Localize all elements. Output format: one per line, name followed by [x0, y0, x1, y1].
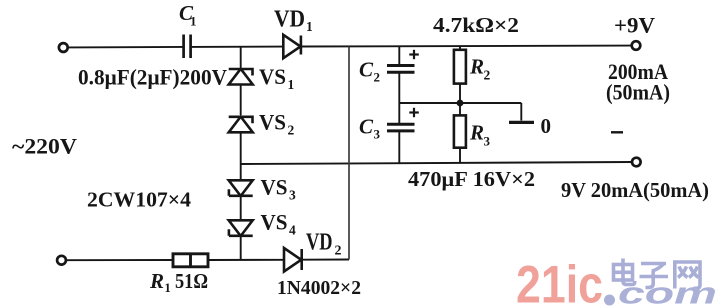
svg-text:3: 3	[484, 134, 491, 149]
svg-text:1N4002×2: 1N4002×2	[277, 277, 361, 299]
label +9V	[614, 13, 655, 38]
wire middle rail	[241, 162, 632, 164]
svg-text:3: 3	[289, 188, 296, 203]
svg-text:+9V: +9V	[614, 13, 655, 38]
zener VS3	[229, 180, 253, 196]
terminal input bottom	[57, 256, 66, 265]
terminal output -9V	[632, 158, 641, 167]
svg-text:2: 2	[484, 68, 491, 83]
svg-text:0.8μF(2μF)200V: 0.8μF(2μF)200V	[78, 65, 227, 90]
label VS3	[261, 175, 297, 203]
svg-text:VS: VS	[259, 110, 286, 135]
wire bottom rail left segment	[66, 259, 173, 261]
wire capacitor column top	[398, 46, 400, 64]
label VD2	[306, 230, 342, 259]
svg-text:R: R	[469, 121, 484, 145]
label 0 ground	[541, 114, 552, 138]
svg-text:0: 0	[541, 114, 552, 138]
svg-text:R: R	[149, 269, 164, 293]
svg-text:VD: VD	[274, 7, 305, 33]
wire top rail right segment	[301, 45, 632, 48]
label 200mA	[608, 59, 668, 84]
label VS4	[261, 210, 297, 238]
svg-text:VS: VS	[261, 210, 288, 235]
label VD1	[274, 7, 313, 34]
label 1N4002x2	[277, 277, 361, 299]
label VS1	[259, 64, 295, 92]
zener VS1	[229, 69, 253, 85]
label R2	[469, 55, 491, 83]
plus sign C3 polarity	[409, 108, 419, 117]
watermark dot	[604, 295, 615, 306]
svg-text:1: 1	[165, 281, 171, 295]
svg-text:(50mA): (50mA)	[606, 80, 670, 105]
svg-text:~220V: ~220V	[12, 134, 77, 159]
svg-text:9V 20mA(50mA): 9V 20mA(50mA)	[561, 178, 709, 202]
svg-text:4: 4	[289, 223, 296, 238]
wire bottom rail right segment	[302, 259, 349, 261]
terminal output +9V	[632, 41, 641, 50]
svg-text:2: 2	[288, 123, 295, 138]
label (50mA)	[606, 80, 670, 105]
label C3	[359, 115, 381, 142]
zener VS2	[229, 117, 253, 133]
label R3	[469, 121, 491, 149]
capacitor C2	[387, 66, 415, 73]
resistor R2	[454, 50, 466, 84]
ground 0V bar	[509, 121, 534, 124]
svg-text:C: C	[359, 115, 374, 139]
wire capacitor column middle	[398, 74, 400, 124]
svg-text:VS: VS	[259, 64, 286, 89]
svg-text:470μF 16V×2: 470μF 16V×2	[408, 167, 535, 191]
terminal input top	[59, 43, 68, 52]
label 0.8uF(2uF)200V	[78, 65, 227, 90]
svg-text:VD: VD	[306, 230, 333, 256]
label R1 51ohm	[149, 269, 208, 295]
label 470uF 16Vx2	[408, 167, 535, 191]
plus sign C2 polarity	[409, 50, 419, 59]
wire between VS3 and VS4	[240, 196, 242, 222]
wire midpoint horizontal	[399, 102, 521, 104]
wire capacitor column bottom	[398, 132, 400, 163]
label 9V 20mA(50mA)	[561, 178, 709, 202]
wire between VS1 and VS2	[240, 85, 242, 116]
label C2	[359, 58, 380, 85]
svg-text:1: 1	[190, 14, 197, 29]
capacitor C3	[387, 124, 415, 131]
svg-text:1: 1	[306, 19, 313, 34]
label C1	[179, 1, 197, 29]
svg-text:3: 3	[374, 127, 381, 142]
resistor R1	[173, 254, 208, 267]
svg-text:21ic: 21ic	[516, 256, 603, 308]
watermark char zi	[640, 264, 669, 288]
diode VD2	[284, 248, 302, 272]
svg-text:2CW107×4: 2CW107×4	[87, 188, 192, 212]
diode VD1	[283, 35, 301, 58]
wire ground drop	[520, 103, 522, 121]
wire zener chain top stub	[240, 47, 242, 68]
label 4.7kohm x2	[433, 13, 519, 37]
label VS2	[259, 110, 295, 138]
resistor R3	[454, 115, 466, 147]
wire bottom rail middle segment	[208, 259, 284, 261]
zener VS4	[229, 220, 253, 236]
svg-text:4.7kΩ×2: 4.7kΩ×2	[433, 13, 519, 37]
watermark char wang	[675, 262, 700, 289]
wire R3 bottom stub	[459, 148, 461, 163]
wire between VS2 and VS3	[240, 133, 242, 181]
watermark 21ic	[516, 256, 603, 308]
node junction R2 R3 midpoint	[457, 100, 464, 107]
capacitor C1	[184, 35, 191, 59]
svg-text:1: 1	[288, 77, 295, 92]
svg-text:R: R	[469, 55, 484, 79]
wire VS4 to bottom rail	[240, 236, 242, 260]
wire R2 bottom to R3 top	[459, 84, 461, 116]
minus sign output	[611, 131, 623, 133]
svg-text:com: com	[618, 276, 716, 308]
svg-text:C: C	[359, 58, 374, 82]
wire top rail left segment	[68, 46, 184, 49]
svg-text:VS: VS	[261, 175, 288, 200]
label ~220V	[12, 134, 77, 159]
svg-text:2: 2	[335, 244, 342, 259]
watermark char dian	[614, 259, 635, 285]
svg-text:2: 2	[374, 70, 381, 85]
label 2CW107x4	[87, 188, 192, 212]
wire top rail middle segment	[190, 46, 283, 48]
svg-text:51Ω: 51Ω	[175, 269, 208, 293]
wire vertical riser x=349	[348, 47, 350, 260]
wire R2 top stub	[459, 46, 461, 50]
watermark com	[618, 276, 716, 308]
